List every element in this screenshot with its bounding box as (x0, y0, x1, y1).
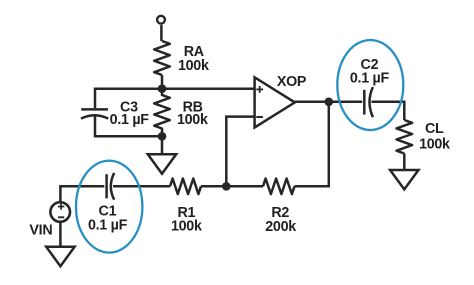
node D (222, 182, 231, 191)
label R2 value (265, 205, 296, 235)
wire (295, 102, 329, 187)
capacitor C1 (107, 173, 115, 200)
highlight ellipse around C2 (337, 40, 403, 130)
label C2 value (350, 57, 390, 86)
svg-text:XOP: XOP (277, 74, 307, 90)
svg-text:100k: 100k (177, 112, 208, 128)
svg-text:0.1 µF: 0.1 µF (350, 71, 390, 87)
wire (161, 75, 164, 89)
ground (390, 170, 418, 189)
svg-text:200k: 200k (265, 219, 296, 235)
wire (59, 223, 62, 248)
wire (95, 89, 255, 109)
svg-text:CL: CL (425, 121, 444, 137)
ground (46, 247, 74, 266)
label CL value (419, 121, 450, 152)
wire (95, 116, 162, 136)
label C1 value (88, 204, 128, 234)
label RB value (177, 100, 208, 129)
wire (372, 102, 405, 120)
voltage source VIN (50, 202, 70, 222)
highlight ellipse around C1 (76, 161, 142, 253)
svg-text:100k: 100k (171, 219, 202, 235)
capacitor C2 (364, 87, 373, 117)
resistor R2 (263, 179, 295, 195)
resistor RA (154, 41, 170, 75)
svg-text:0.1 µF: 0.1 µF (88, 218, 128, 234)
node A (158, 84, 167, 93)
resistor R1 (170, 179, 201, 195)
svg-text:VIN: VIN (29, 223, 52, 239)
terminal T1 (157, 16, 165, 24)
label RA value (178, 44, 209, 74)
wire (226, 117, 254, 187)
wire (295, 101, 362, 104)
svg-text:0.1 µF: 0.1 µF (110, 112, 150, 128)
wire (160, 25, 163, 41)
label R1 value (171, 205, 202, 235)
ground (148, 154, 176, 173)
svg-text:100k: 100k (419, 136, 450, 152)
wire (60, 186, 104, 201)
wire (161, 136, 164, 154)
resistor RB (154, 89, 170, 137)
wire (403, 154, 406, 172)
wire (201, 185, 263, 188)
wire (113, 185, 170, 188)
node C (324, 97, 333, 106)
node B (158, 132, 167, 141)
label C3 value (110, 100, 150, 129)
svg-text:100k: 100k (178, 58, 209, 74)
capacitor C3 (81, 109, 108, 118)
op-amp U1 XOP (255, 77, 295, 127)
resistor CL (397, 120, 413, 154)
